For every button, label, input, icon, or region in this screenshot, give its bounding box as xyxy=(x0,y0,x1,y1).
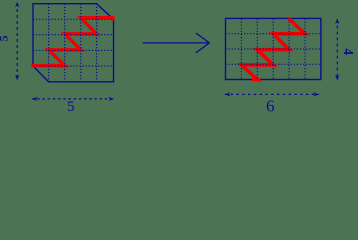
svg-text:6: 6 xyxy=(266,96,275,113)
right grid dotted vertical line x5 xyxy=(304,18,306,79)
left grid dotted vertical line x4 xyxy=(96,4,98,82)
left grid dotted vertical line x2 xyxy=(64,4,66,82)
left vertical dimension dashed line xyxy=(16,3,18,81)
right figure: 6x4 rectangle outline xyxy=(226,18,321,79)
svg-text:5: 5 xyxy=(0,35,11,41)
svg-text:4: 4 xyxy=(341,48,356,55)
left bottom dimension right arrowhead xyxy=(108,97,114,101)
left grid dotted horizontal line y1 xyxy=(33,18,114,20)
left grid dotted vertical line x1 xyxy=(48,4,50,82)
right grid dotted horizontal line y1 xyxy=(226,33,321,35)
right grid dotted horizontal line y3 xyxy=(226,63,321,65)
right dimension bottom arrowhead xyxy=(335,75,339,81)
right bottom dimension dashed line xyxy=(225,93,319,95)
left dimension top arrowhead xyxy=(15,2,19,8)
svg-text:5: 5 xyxy=(67,99,75,113)
right dimension top arrowhead xyxy=(335,19,339,25)
right grid dotted vertical line x3 xyxy=(272,18,274,79)
right vertical dimension dashed line xyxy=(336,20,338,80)
left figure: chamfered 5x5 square outline xyxy=(33,4,114,82)
right grid dotted vertical line x2 xyxy=(256,18,258,79)
left grid dotted horizontal line y4 xyxy=(33,65,114,67)
middle transformation arrow xyxy=(143,33,210,53)
left bottom dimension dashed line xyxy=(32,98,114,100)
right bottom dimension right arrowhead xyxy=(313,92,319,96)
left dimension bottom arrowhead xyxy=(15,75,19,81)
left bottom dimension left arrowhead xyxy=(32,97,38,101)
right grid dotted vertical line x4 xyxy=(288,18,290,79)
left grid dotted horizontal line y3 xyxy=(33,49,114,51)
right grid dotted vertical line x1 xyxy=(240,18,242,79)
right red foot over bottom border xyxy=(258,78,261,81)
right bottom dimension left arrowhead xyxy=(225,92,231,96)
left grid dotted horizontal line y2 xyxy=(33,34,114,36)
left red staircase cut xyxy=(33,18,113,66)
right red staircase cut xyxy=(241,19,305,79)
left grid dotted vertical line x3 xyxy=(80,4,82,82)
left red cut stub at top-right chamfer xyxy=(111,17,114,20)
right grid dotted horizontal line y2 xyxy=(226,48,321,50)
